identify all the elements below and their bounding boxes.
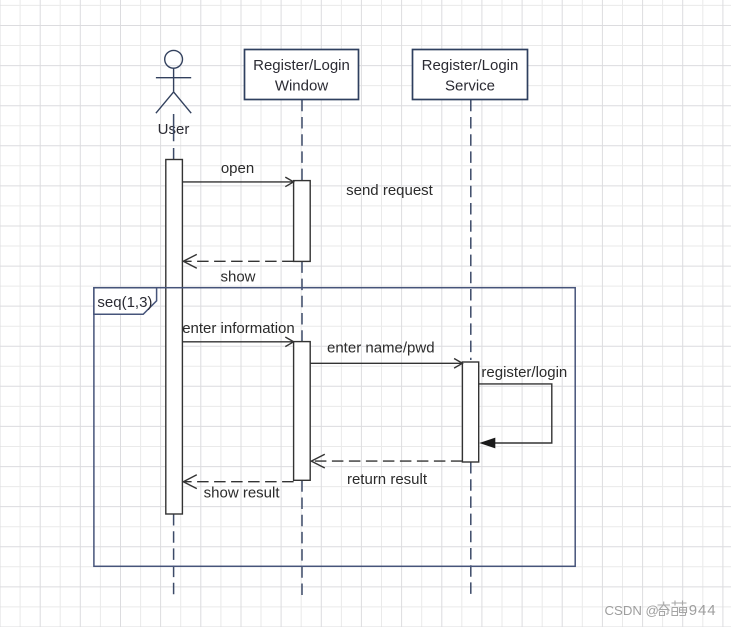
message return result (dashed return arrow left): [311, 454, 462, 468]
svg-text:944: 944: [689, 602, 717, 619]
activation bar Window 1: [294, 181, 311, 262]
svg-text:register/login: register/login: [481, 364, 567, 381]
actor User (stick figure): [156, 50, 191, 113]
message enter information (solid arrow right): [182, 337, 293, 347]
activation bar Window 2: [294, 342, 311, 481]
watermark glyph pa: [672, 601, 687, 616]
object box Register/Login Window: [245, 50, 359, 100]
message enter name/pwd (solid arrow right): [310, 359, 462, 369]
lifeline User (dashed): [173, 114, 175, 598]
lifeline Window (dashed): [301, 100, 303, 598]
svg-text:Service: Service: [445, 77, 495, 94]
svg-text:enter name/pwd: enter name/pwd: [327, 340, 435, 357]
svg-text:Window: Window: [275, 77, 329, 94]
message open (solid arrow right): [182, 177, 293, 187]
svg-text:seq(1,3): seq(1,3): [97, 294, 152, 311]
fragment seq(1,3) frame: [94, 288, 575, 567]
svg-text:show result: show result: [204, 485, 281, 502]
activation bar User: [166, 160, 183, 515]
svg-text:return result: return result: [347, 471, 428, 488]
svg-text:Register/Login: Register/Login: [253, 57, 350, 74]
svg-text:open: open: [221, 160, 254, 177]
watermark glyph qi: [658, 602, 671, 616]
svg-text:send request: send request: [346, 182, 434, 199]
message show (dashed return arrow left): [183, 254, 293, 268]
svg-text:show: show: [220, 268, 255, 285]
message show result (dashed return arrow left): [183, 475, 293, 489]
svg-text:CSDN @: CSDN @: [605, 603, 659, 618]
message register/login (self message with filled arrow): [479, 384, 552, 443]
lifeline Service (dashed): [470, 100, 472, 598]
svg-text:enter information: enter information: [182, 320, 295, 337]
object box Register/Login Service: [413, 50, 528, 100]
activation bar Service: [462, 362, 478, 462]
svg-text:Register/Login: Register/Login: [422, 57, 519, 74]
